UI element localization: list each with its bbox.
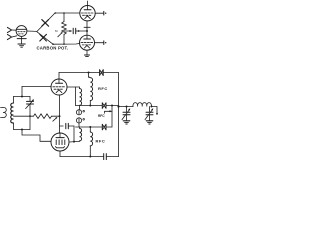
node left of C3: [69, 30, 71, 32]
blocking capacitor C9: [104, 154, 107, 160]
node tap crossing tank edge: [29, 115, 31, 117]
tube V1: [80, 6, 95, 21]
tube V2 cathode lead: [84, 50, 89, 56]
tube V3: [51, 79, 67, 95]
cathode vertical wire V3 to V4: [59, 95, 61, 133]
tube V2 output lead: [95, 41, 107, 45]
tube V4: [51, 133, 69, 151]
tank inductor L2: [11, 97, 14, 130]
tube V3 anode side lead: [67, 86, 80, 88]
tube V2: [80, 35, 95, 50]
tube V4 cathode lead: [59, 151, 61, 156]
svg-text:RFC: RFC: [98, 86, 108, 91]
wire C3 to center tap node: [76, 30, 87, 32]
plate bus wire to feed line: [103, 72, 119, 74]
bottom bus wire W5: [60, 156, 119, 158]
neutralizing capacitor C8: [60, 123, 75, 141]
tank variable capacitor C4: [26, 97, 34, 130]
pi network input wire: [119, 106, 134, 108]
wire mic to bridge node: [27, 30, 37, 32]
wire wiper link: [64, 30, 71, 32]
feed line vertical wire: [118, 73, 120, 157]
svg-text:RFC: RFC: [96, 139, 106, 144]
antenna terminal dot: [156, 113, 158, 115]
resistor tap arrow: [53, 117, 58, 121]
node W5 choke tap: [89, 156, 91, 158]
node tank top tap: [21, 96, 23, 98]
bracket stub wire: [105, 111, 113, 113]
wire jacks to microphone: [12, 30, 17, 37]
inter-tube vertical wire: [86, 21, 88, 35]
grid leak resistor R2: [14, 114, 60, 119]
supply bus wire W3: [76, 126, 113, 128]
capacitor X symbol C2: [40, 34, 47, 41]
node bracket stub: [109, 110, 111, 112]
wire V3 side down to supply bus: [75, 87, 77, 106]
filament choke L4: [80, 87, 82, 105]
tube V1 plate lead top: [87, 1, 89, 6]
plate RFC choke L6: [90, 127, 92, 157]
grid wire tank to tube V3: [22, 86, 51, 96]
tube V4 side lead: [69, 140, 79, 143]
potentiometer wiper arrow: [58, 32, 63, 37]
wire top bus to tube V1 grid: [55, 12, 80, 14]
antenna link coil L1: [1, 107, 7, 117]
supply bus wire W1: [76, 105, 119, 107]
coupling capacitor C3: [73, 28, 76, 33]
svg-text:CARBON POT.: CARBON POT.: [37, 46, 69, 51]
tube V3 plate lead: [58, 73, 60, 80]
bypass capacitor C6: [102, 103, 106, 108]
supply terminal T2: [76, 118, 84, 127]
node right of C3: [78, 30, 80, 32]
plate RFC choke L3: [89, 73, 93, 106]
ground G1: [123, 121, 130, 124]
wire bottom bus to tube V2 grid: [53, 42, 80, 45]
ground G2: [146, 121, 153, 124]
variable capacitor C11: [145, 107, 153, 121]
node V4 side lead: [73, 141, 75, 143]
grid bar between tubes: [84, 26, 90, 28]
potentiometer R1 vertical element: [62, 13, 67, 44]
mic battery lead wire: [21, 36, 23, 43]
node at tube center tap: [86, 30, 88, 32]
node tank bottom tap: [21, 129, 23, 131]
mic input jack J1: [7, 27, 11, 32]
node W3 choke tap: [89, 126, 91, 128]
bracket vertical wire: [111, 106, 113, 128]
node pi output cap: [150, 106, 152, 108]
ground under microphone: [18, 44, 25, 47]
blocking capacitor C5: [100, 70, 104, 76]
mic input jack J2: [7, 34, 11, 39]
bridge upper diagonal wire: [37, 13, 55, 31]
node top resistor junction: [63, 12, 65, 14]
pi network output wire: [151, 107, 157, 114]
tube V1 output lead: [95, 11, 106, 15]
svg-text:RFC: RFC: [98, 114, 105, 118]
carbon microphone M1: [16, 26, 27, 39]
tank circuit box top: [14, 96, 31, 98]
variable capacitor C10: [122, 107, 130, 121]
node bottom resistor junction: [63, 43, 65, 45]
svg-text:M: M: [55, 29, 58, 33]
node W1 bracket: [111, 105, 113, 107]
capacitor X symbol C1: [42, 20, 49, 27]
node W1 choke tap: [89, 105, 91, 107]
node resistor to cathode line: [59, 115, 61, 117]
node plate bus RFC tap: [88, 72, 90, 74]
tank coil L7: [133, 103, 151, 107]
node top vertex: [55, 12, 57, 14]
bypass capacitor C7: [102, 124, 106, 129]
wire tank bottom to tube V4 grid: [22, 130, 51, 142]
node bottom vertex: [52, 43, 54, 45]
bridge lower diagonal wire: [37, 32, 53, 44]
tank box bottom: [14, 129, 31, 131]
filament choke L5: [80, 127, 82, 141]
plate bus wire top: [59, 72, 100, 74]
node feed to pi network: [117, 105, 119, 107]
node pi input cap: [126, 106, 128, 108]
supply terminal T1: [76, 106, 84, 115]
